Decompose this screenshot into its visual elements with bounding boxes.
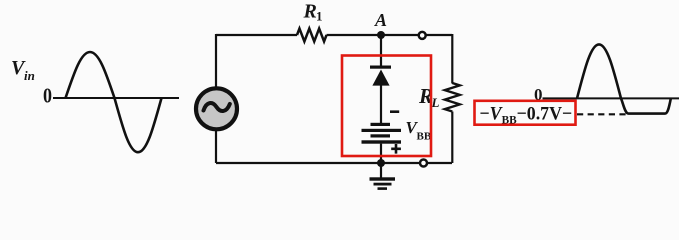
- node A: [377, 31, 385, 39]
- wire battery to bottom: [380, 144, 382, 163]
- resistor R1: [297, 29, 327, 42]
- wire right vertical (lower): [451, 112, 453, 164]
- red annotation box (diode + battery): [342, 56, 431, 157]
- wire left vertical (upper): [215, 34, 217, 87]
- wire top-left: [216, 34, 297, 36]
- wire right vertical (upper): [451, 34, 453, 84]
- output clipped sine wave: [577, 44, 671, 113]
- resistor RL: [445, 83, 460, 112]
- input waveform axis: [53, 97, 179, 99]
- wire diode to battery: [380, 85, 382, 123]
- svg-text:A: A: [374, 10, 387, 30]
- wire diode branch (node A to diode): [380, 35, 382, 66]
- wire top-right: [426, 34, 452, 36]
- wire bottom-right: [427, 162, 452, 164]
- ground bar 1: [370, 177, 396, 180]
- AC source Vin circle: [196, 88, 237, 129]
- svg-text:R: R: [303, 1, 317, 23]
- battery VBB plate 3 (short): [371, 134, 391, 137]
- svg-text:in: in: [24, 68, 35, 83]
- output terminal (bottom open circle): [420, 160, 427, 167]
- svg-text:0: 0: [43, 84, 52, 108]
- output terminal (top open circle): [419, 32, 426, 39]
- battery VBB plate 4 (long): [362, 140, 402, 143]
- AC source sine symbol: [204, 103, 230, 111]
- battery VBB plate 2 (long): [362, 129, 402, 132]
- svg-text:BB: BB: [417, 131, 432, 143]
- battery minus sign: [390, 110, 399, 113]
- ground stem: [380, 163, 382, 178]
- diode D1 triangle: [372, 70, 389, 86]
- svg-text:1: 1: [316, 9, 323, 24]
- ground bar 3: [378, 187, 388, 190]
- junction node (bottom): [377, 159, 385, 167]
- ground bar 2: [374, 183, 392, 186]
- output waveform axis: [543, 97, 679, 99]
- wire bottom: [216, 162, 420, 164]
- battery VBB plate 1 (short): [371, 123, 391, 126]
- input sine wave: [66, 52, 162, 152]
- wire top-middle: [327, 34, 419, 36]
- wire left vertical (lower): [215, 131, 217, 164]
- battery plus sign: [391, 144, 401, 154]
- clip level dashed line: [577, 113, 626, 115]
- red annotation box (clip level label): [475, 101, 576, 125]
- svg-text:−VBB−0.7V−: −VBB−0.7V−: [480, 103, 573, 127]
- diode D1 cathode bar: [370, 66, 391, 69]
